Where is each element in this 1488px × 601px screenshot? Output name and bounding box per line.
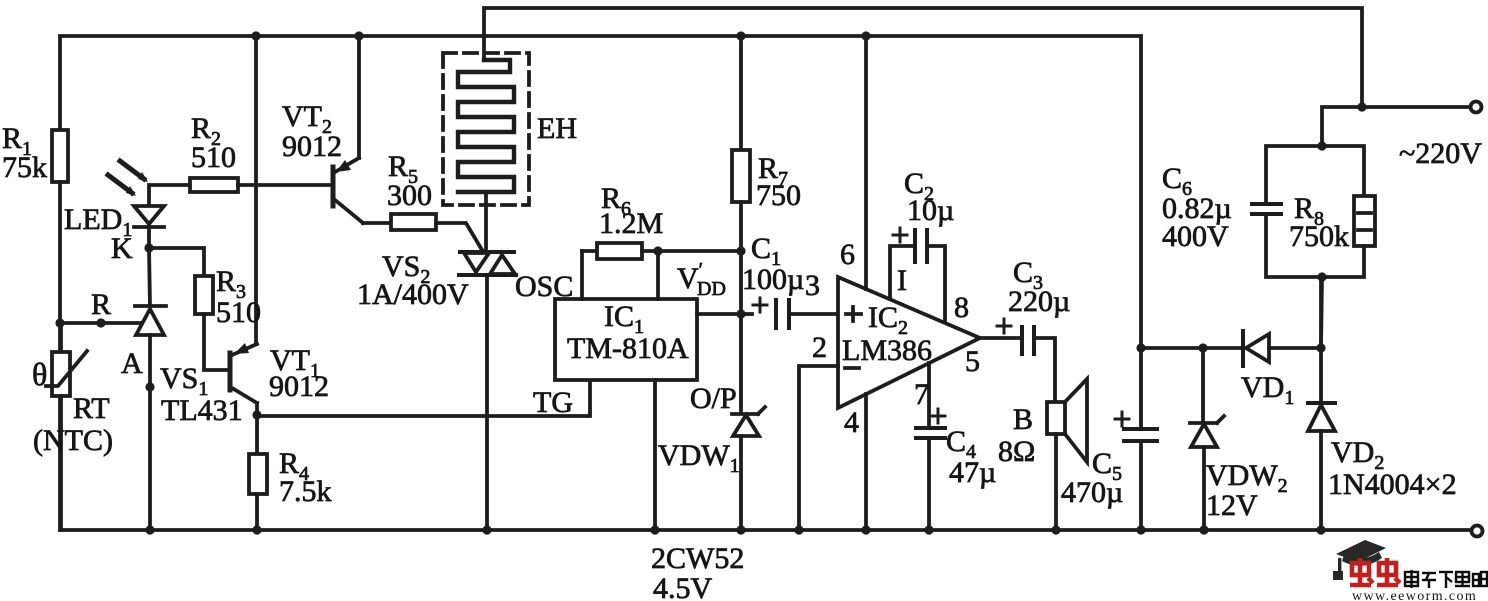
svg-text:TM-810A: TM-810A (567, 332, 689, 365)
resistor R8 750k (right branch of snubber box) (1322, 146, 1375, 277)
IC U1 TM-810A box (555, 299, 697, 380)
capacitor C1 100u (753, 298, 838, 328)
heater EH dashed box (443, 53, 529, 205)
svg-text:510: 510 (191, 141, 236, 174)
svg-text:510: 510 (216, 296, 261, 329)
capacitor C6 0.82u 400V (left branch of snubber box) (1252, 146, 1322, 277)
transistor VT2 9012 (333, 36, 363, 223)
terminal ~220V top (1471, 102, 1482, 113)
pin 4 wire (864, 394, 868, 530)
pin 3 plus sign (846, 307, 861, 321)
pin VDD of IC1 (658, 251, 741, 299)
svg-text:100µ: 100µ (742, 263, 804, 296)
node O/P-C1 (736, 309, 745, 318)
resistor R3 (195, 276, 228, 370)
resistor R2 (190, 178, 331, 192)
node rail2-VT1e (251, 31, 260, 40)
svg-text:400V: 400V (1162, 220, 1229, 253)
wire to AC terminal (1362, 105, 1469, 109)
svg-text:75k: 75k (2, 151, 47, 184)
heater EH element (458, 60, 514, 192)
svg-text:I: I (897, 264, 907, 297)
svg-text:5: 5 (965, 345, 980, 378)
node R6-VDD (653, 246, 662, 255)
node gnd speaker (1051, 525, 1060, 534)
resistor R1 (52, 130, 68, 323)
node gnd R4 (252, 525, 261, 534)
node AC branch (1357, 102, 1366, 111)
node K wire to R3 (149, 248, 204, 276)
terminal ~220V bottom (1472, 526, 1483, 537)
svg-text:8: 8 (954, 291, 969, 324)
capacitor C2 10u with pin1 pin8 loop (890, 228, 945, 322)
node gnd VS2 (482, 525, 491, 534)
node R7-R6 (736, 246, 745, 255)
svg-text:A: A (121, 347, 143, 380)
svg-text:220µ: 220µ (1008, 285, 1070, 318)
svg-text:4: 4 (844, 406, 859, 439)
svg-text:9012: 9012 (269, 370, 329, 403)
node gnd C4 (924, 525, 933, 534)
pin 6 wire (864, 36, 868, 289)
speaker B 8ohm (1047, 379, 1087, 530)
wire ~220V branch (1322, 107, 1362, 146)
svg-text:12V: 12V (1206, 489, 1258, 522)
wire DC node (1141, 346, 1243, 350)
resistor R4 (249, 415, 267, 530)
node rail2-R7 (736, 31, 745, 40)
node VDW2 top (1198, 343, 1207, 352)
pin 2 minus sign (845, 366, 859, 370)
regulator VS1 TL431 (135, 248, 166, 530)
node snubber top (1317, 141, 1326, 150)
svg-text:1.2M: 1.2M (599, 207, 663, 240)
node snubber bottom (1317, 272, 1326, 281)
node A (145, 382, 154, 391)
svg-text:3: 3 (805, 269, 820, 302)
svg-text:~220V: ~220V (1399, 137, 1482, 170)
svg-text:LM386: LM386 (842, 334, 932, 367)
wire EH to triac (484, 192, 488, 250)
node gnd VDW2 (1199, 525, 1208, 534)
node gnd pin2 (794, 525, 803, 534)
zener VDW1 2CW52 (732, 407, 765, 530)
svg-text:1N4004×2: 1N4004×2 (1328, 468, 1457, 501)
svg-text:300: 300 (387, 179, 432, 212)
diode VD2 1N4004 (1308, 277, 1335, 530)
wire TG (VT1 collector to IC1 TG pin) (257, 380, 590, 416)
diode VD1 (1243, 331, 1321, 366)
pin GND of IC1 (653, 380, 657, 530)
svg-text:7.5k: 7.5k (279, 475, 332, 508)
node gnd C5 (1136, 525, 1145, 534)
op-amp U2 LM386 triangle (838, 277, 980, 408)
node gnd pin4 (861, 525, 870, 534)
node gnd IC1 (650, 525, 659, 534)
logo graduation cap (1333, 540, 1386, 580)
svg-text:750: 750 (756, 179, 801, 212)
svg-text:θ: θ (32, 356, 47, 392)
node rail2-pin6 (861, 31, 870, 40)
node VD2 top (1316, 343, 1325, 352)
pin OSC of IC1 (580, 251, 584, 299)
svg-text:B: B (1013, 403, 1033, 436)
wire LED anode / R2 left (149, 185, 190, 206)
svg-text:47µ: 47µ (949, 456, 996, 489)
pin O/P wire of IC1 (697, 312, 752, 316)
svg-text:TG: TG (533, 386, 573, 419)
node R (wire to VS1 ref) (60, 321, 146, 325)
svg-text:O/P: O/P (690, 382, 737, 415)
svg-text:EH: EH (537, 112, 577, 145)
svg-text:1A/400V: 1A/400V (357, 278, 469, 311)
node gnd VS1 (145, 525, 154, 534)
pin 7 wire (927, 363, 931, 426)
pin 5 output wire (980, 336, 1021, 340)
LED LED1 (108, 161, 164, 248)
capacitor C5 470u (1115, 348, 1157, 530)
wire bottom rail (ground) (60, 323, 1471, 530)
pin 2 wire (799, 366, 838, 530)
svg-text:2CW52: 2CW52 (651, 542, 744, 575)
wire top rail 2 (supply rail) (60, 36, 1141, 348)
watermark logo eeworm (1333, 540, 1487, 601)
svg-text:TL431: TL431 (161, 394, 243, 427)
capacitor C3 220u (997, 319, 1055, 402)
wire top rail 1 (EH feed to ~220V) (484, 8, 1362, 107)
wire snubber to VD2 (1321, 277, 1322, 348)
svg-text:470µ: 470µ (1061, 476, 1123, 509)
logo site name glyphs (1405, 570, 1487, 588)
svg-text:4.5V: 4.5V (653, 572, 713, 601)
node R (96, 318, 105, 327)
node gnd VDW1 (736, 525, 745, 534)
svg-text:6: 6 (840, 238, 855, 271)
svg-text:(NTC): (NTC) (33, 424, 113, 457)
triac VS2 (459, 252, 516, 530)
resistor R7 (732, 36, 750, 412)
svg-text:8Ω: 8Ω (998, 435, 1035, 468)
svg-text:10µ: 10µ (907, 194, 954, 227)
svg-text:K: K (111, 232, 133, 265)
thermistor RT (NTC) (46, 323, 87, 530)
svg-text:VDW1: VDW1 (658, 439, 740, 477)
svg-text:RT: RT (73, 392, 110, 425)
zener VDW2 12V (1190, 348, 1224, 530)
svg-text:2: 2 (812, 331, 827, 364)
capacitor C4 47u (916, 409, 945, 530)
resistor R6 (582, 243, 658, 259)
node K (144, 243, 153, 252)
node VT1 collector (252, 410, 261, 419)
svg-text:7: 7 (914, 378, 929, 411)
node gnd VD2 (1316, 525, 1325, 534)
resistor R5 (363, 214, 482, 250)
node C5 top (1136, 343, 1145, 352)
node rail2-VT2e (354, 31, 363, 40)
svg-text:www.eeworm.com: www.eeworm.com (1352, 589, 1477, 601)
node R1-RT (55, 318, 64, 327)
logo chongchong characters (1350, 558, 1400, 585)
svg-text:OSC: OSC (515, 270, 573, 303)
svg-text:9012: 9012 (282, 130, 342, 163)
transistor VT1 9012 (230, 36, 257, 415)
svg-text:R: R (91, 288, 111, 321)
svg-text:750k: 750k (1289, 220, 1349, 253)
